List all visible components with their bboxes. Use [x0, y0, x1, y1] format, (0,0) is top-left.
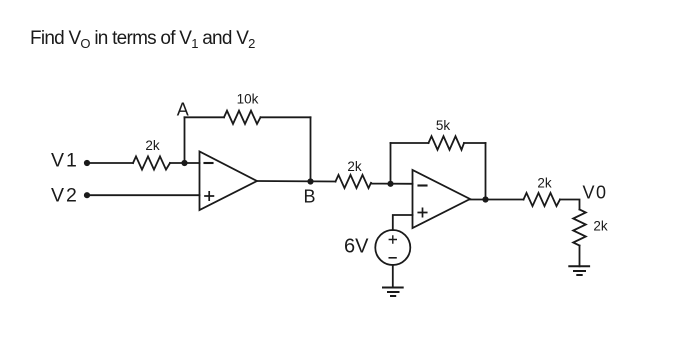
node U2 output junction dot — [482, 196, 488, 202]
voltage source minus sign — [389, 257, 396, 259]
op-amp U1 plus sign — [205, 192, 213, 200]
svg-text:V2: V2 — [51, 185, 79, 207]
svg-text:10k: 10k — [237, 92, 259, 107]
op-amp U2 minus sign — [419, 184, 427, 186]
svg-text:B: B — [303, 187, 315, 207]
op-amp U2 triangle — [413, 170, 471, 228]
wire 6V source to ground — [392, 265, 394, 288]
op-amp U2 plus sign — [418, 208, 426, 216]
svg-text:5k: 5k — [436, 118, 451, 133]
op-amp U1 triangle — [200, 152, 258, 211]
resistor R4 5k (feedback U2) — [429, 136, 465, 150]
resistor R2 10k (feedback U1) — [224, 111, 261, 124]
svg-text:Find VO in terms of V1 and V2: Find VO in terms of V1 and V2 — [30, 28, 255, 51]
node N2 junction dot (U2 inverting input) — [387, 181, 393, 187]
svg-text:A: A — [177, 100, 189, 120]
resistor R1 2k (V1 input) — [133, 156, 170, 169]
ground G1 (under 6V source) — [383, 288, 403, 297]
wire feedback row left segment — [185, 116, 225, 118]
resistor R3 2k (between B and U2) — [336, 175, 372, 188]
node A junction dot — [181, 160, 187, 166]
svg-text:V1: V1 — [51, 150, 79, 172]
svg-text:2k: 2k — [145, 138, 160, 153]
wire feedback row 2 left segment — [391, 142, 429, 144]
wire 6V source to U2 non-inverting input — [393, 215, 413, 230]
wire U2 output to R5 — [470, 199, 524, 201]
wire node B down from feedback row — [310, 117, 312, 181]
resistor R5 2k (output series) — [524, 193, 561, 206]
svg-text:6V: 6V — [344, 236, 369, 258]
svg-text:2k: 2k — [593, 219, 608, 234]
svg-text:2k: 2k — [537, 176, 552, 191]
svg-text:V0: V0 — [583, 183, 608, 203]
wire node N2 up to feedback row 2 — [390, 143, 392, 184]
wire R3 to node N2 and op-amp U2 inverting input — [371, 183, 413, 185]
voltage source plus sign — [389, 236, 396, 243]
wire feedback row right segment — [261, 116, 311, 118]
wire feedback row 2 right segment — [464, 142, 486, 144]
ground G2 (under R6) — [569, 266, 589, 275]
wire V2 to op-amp U1 non-inverting input — [87, 194, 200, 196]
wire V1 to R1 — [87, 162, 133, 164]
wire node A up to feedback row — [184, 117, 186, 163]
node B junction dot — [307, 178, 313, 184]
node V1 terminal dot — [84, 160, 90, 166]
op-amp U1 minus sign — [205, 162, 213, 164]
svg-text:2k: 2k — [347, 159, 362, 174]
resistor R6 2k (vertical to ground) — [573, 210, 586, 246]
wire R1 to node A and op-amp U1 inverting input — [170, 162, 200, 164]
wire feedback row 2 down to U2 output node — [485, 143, 487, 200]
wire R5 to corner at VO — [560, 200, 580, 210]
wire R6 to ground — [579, 246, 581, 267]
voltage source V3 6V circle — [375, 230, 410, 265]
wire U1 output to node B and R3 — [257, 180, 336, 183]
node V2 terminal dot — [84, 192, 90, 198]
